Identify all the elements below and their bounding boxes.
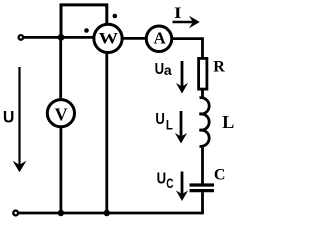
svg-text:C: C	[166, 175, 173, 191]
svg-text:L: L	[166, 117, 173, 133]
svg-text:V: V	[55, 104, 68, 124]
svg-text:a: a	[164, 62, 172, 78]
svg-text:A: A	[154, 29, 167, 48]
svg-text:U: U	[3, 107, 15, 126]
svg-text:U: U	[155, 61, 165, 78]
svg-text:R: R	[213, 58, 225, 75]
svg-text:W: W	[99, 30, 119, 47]
svg-text:L: L	[222, 112, 234, 132]
svg-text:I: I	[174, 5, 182, 22]
svg-text:C: C	[214, 166, 226, 183]
svg-text:U: U	[155, 111, 165, 128]
svg-text:U: U	[157, 171, 167, 188]
